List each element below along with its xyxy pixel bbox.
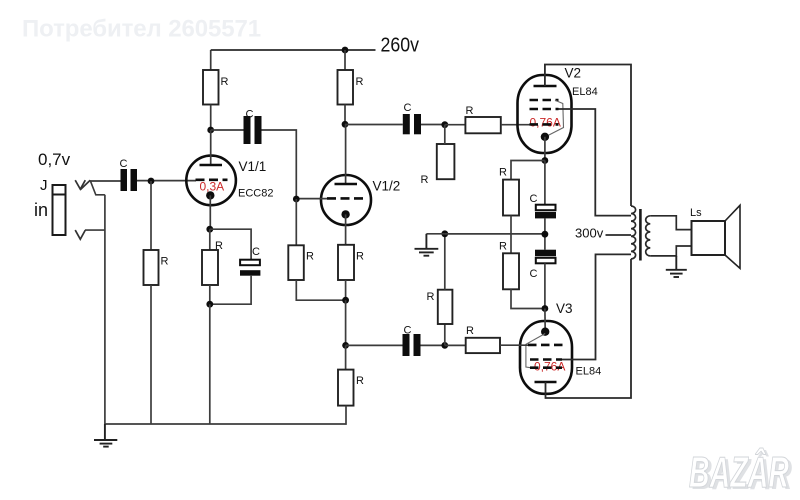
- resistor R (V1/2 grid leak): [288, 199, 345, 300]
- wire: secondary top to speaker: [650, 216, 691, 230]
- wire: divider mid to ground symbol: [426, 233, 444, 235]
- node: cathode network bottom junction: [206, 301, 213, 308]
- V2 g3 to cathode tie: [547, 100, 564, 136]
- node: V1/2 cathode junction: [342, 297, 349, 304]
- svg-text:R: R: [427, 291, 435, 303]
- triode V1/2 envelope: [321, 175, 371, 225]
- wire: V2 screen to transformer tap: [559, 109, 632, 216]
- V3 suppressor grid g3 (dashed): [530, 366, 562, 369]
- wire: grid node to V1/2 grid: [296, 198, 327, 200]
- V1/1 grid (dashed): [196, 179, 228, 182]
- svg-text:V1/1: V1/1: [239, 159, 267, 174]
- resistor R (V1/2 cathode lower): [338, 345, 354, 424]
- svg-text:R: R: [215, 240, 223, 252]
- resistor R (V3 grid stopper, horizontal): [445, 338, 528, 353]
- V2 suppressor grid g3 (dashed): [530, 99, 559, 102]
- wire: chain bottom to V3 cathode junction: [511, 289, 545, 308]
- capacitor C (V1/1 cathode bypass, electrolytic): [210, 229, 261, 304]
- wire: secondary bottom to speaker: [650, 246, 691, 256]
- resistor R (divider lower): [438, 234, 453, 346]
- svg-text:Ls: Ls: [690, 207, 702, 219]
- node: divider mid junction: [441, 230, 448, 237]
- V2 anode lead to transformer: [545, 65, 631, 207]
- wire: cathode junction down: [345, 300, 347, 345]
- net: 260v rail wire: [211, 49, 376, 51]
- wire: sleeve to ground vertical: [85, 229, 105, 231]
- V3 cathode dot: [541, 328, 549, 336]
- svg-text:300v: 300v: [575, 226, 604, 241]
- node: V1/2 anode junction: [342, 121, 349, 128]
- node: V3 cathode junction: [542, 305, 549, 312]
- transformer primary winding: [631, 206, 636, 259]
- svg-text:C: C: [246, 109, 254, 121]
- V3 screen grid g2 (dashed): [530, 358, 562, 361]
- transformer core: [639, 209, 642, 261]
- svg-text:V3: V3: [556, 301, 573, 316]
- svg-text:EL84: EL84: [576, 366, 602, 378]
- resistor R (V1/1 plate load): [203, 50, 219, 130]
- transformer secondary winding: [646, 216, 651, 256]
- wire: input cap to V1/1 grid: [137, 180, 196, 182]
- jack J connector body: [53, 185, 66, 235]
- svg-text:0,3A: 0,3A: [200, 180, 225, 194]
- wire: V3 screen to transformer tap: [562, 254, 631, 359]
- svg-text:C: C: [404, 325, 412, 337]
- V3 control grid g1 (dashed): [528, 344, 563, 347]
- wire: V2 cathode junction to cap chain: [544, 161, 546, 205]
- svg-text:R: R: [356, 375, 364, 387]
- wire: between chain resistors: [510, 216, 512, 254]
- svg-text:R: R: [356, 76, 364, 88]
- svg-text:R: R: [421, 174, 429, 186]
- wire: cap chain mid: [544, 218, 546, 249]
- resistor R (V1/1 grid leak): [144, 181, 159, 424]
- jack sleeve contact: [75, 230, 85, 239]
- svg-text:EL84: EL84: [572, 86, 598, 98]
- V1/1 anode lead: [210, 130, 212, 165]
- V1/2 grid (dashed): [327, 197, 368, 200]
- svg-text:C: C: [530, 268, 538, 280]
- node: cap chain mid junction: [542, 231, 549, 238]
- wire: cap chain bottom to V3 cathode junction: [544, 263, 546, 308]
- node: phase splitter output junction: [342, 342, 349, 349]
- ground symbol (main): [94, 424, 117, 447]
- wire: divider mid to cathode cap chain: [445, 233, 545, 235]
- ground symbol (secondary): [666, 256, 687, 277]
- V2 cathode dot: [541, 133, 549, 141]
- svg-text:R: R: [499, 241, 507, 253]
- svg-text:R: R: [221, 76, 229, 88]
- svg-text:ECC82: ECC82: [238, 188, 273, 200]
- wire: coupling cap 3 to V3 grid node: [421, 344, 445, 346]
- V3 g3 to cathode tie: [526, 334, 545, 368]
- svg-text:R: R: [499, 167, 507, 179]
- wire: V1/2 anode junction to coupling cap 2: [345, 124, 403, 126]
- speaker Ls: [692, 205, 741, 268]
- node: V2 grid node: [441, 121, 448, 128]
- node: V1/1 anode junction: [207, 127, 214, 134]
- svg-text:260v: 260v: [381, 34, 420, 57]
- svg-text:C: C: [530, 193, 538, 205]
- resistor R (V2 cathode chain upper): [503, 180, 519, 216]
- V3 plate: [535, 381, 557, 384]
- wire: 300v center tap: [606, 234, 632, 236]
- node: 260v rail junction: [342, 47, 349, 54]
- capacitor C (input): [121, 169, 138, 191]
- resistor R (V1/2 cathode upper): [338, 245, 354, 300]
- V1/2 anode lead: [345, 124, 347, 184]
- svg-text:C: C: [120, 158, 128, 170]
- V1/2 cathode dot: [341, 210, 349, 218]
- V1/1 cathode lead: [209, 195, 211, 229]
- ground symbol (divider): [415, 234, 439, 256]
- V1/2 plate: [335, 183, 358, 186]
- resistor R (V2 cathode chain lower): [503, 253, 519, 289]
- V1/1 plate: [200, 164, 223, 167]
- wire: tip to input cap: [90, 180, 121, 182]
- svg-text:R: R: [161, 256, 169, 268]
- svg-text:0,76A: 0,76A: [530, 116, 561, 130]
- node: V1/1 grid junction: [148, 178, 155, 185]
- V2 plate: [534, 85, 557, 88]
- node: V1/2 grid junction: [293, 196, 300, 203]
- svg-text:J: J: [40, 177, 48, 194]
- resistor R (V2 grid stopper, horizontal): [445, 117, 531, 133]
- capacitor C (V1/1 to V1/2 coupling): [244, 116, 262, 144]
- V1/1 cathode dot: [206, 191, 214, 199]
- wire: cathode network to ground bus: [209, 304, 211, 424]
- svg-text:Потребител 2605571: Потребител 2605571: [22, 16, 261, 43]
- svg-text:C: C: [252, 246, 260, 258]
- svg-text:R: R: [466, 105, 474, 117]
- svg-text:in: in: [34, 200, 48, 220]
- node: V2 cathode junction: [542, 157, 549, 164]
- wire: input ground vertical: [104, 195, 106, 424]
- svg-text:0,7v: 0,7v: [38, 150, 71, 169]
- resistor R (V1/1 cathode): [202, 229, 218, 304]
- capacitor C (V1/2 to V2 coupling): [403, 114, 421, 134]
- V1/2 cathode lead: [345, 214, 347, 244]
- jack tip contact: [75, 180, 90, 189]
- wire: coupling cap to V1/2 grid: [262, 130, 297, 199]
- wire: splitter junction to lower coupling cap: [346, 344, 403, 346]
- svg-text:R: R: [466, 325, 474, 337]
- wire: coupling cap 2 to V2 grid node: [421, 124, 445, 126]
- capacitor C (cathode chain lower, electrolytic): [535, 250, 556, 264]
- svg-text:R: R: [356, 251, 364, 263]
- svg-text:R: R: [306, 251, 314, 263]
- capacitor C (cathode chain upper, electrolytic): [535, 205, 556, 219]
- triode V1/1 envelope: [186, 156, 236, 206]
- svg-text:V1/2: V1/2: [373, 179, 401, 194]
- V2 screen grid g2 (dashed): [530, 108, 559, 111]
- wire: V2 cathode to resistor chain: [511, 161, 545, 180]
- V3 anode lead to transformer: [546, 259, 632, 398]
- svg-text:C: C: [404, 102, 412, 114]
- node: V3 grid node: [441, 342, 448, 349]
- pentode V2 envelope: [518, 75, 572, 153]
- node: V1/1 cathode junction: [206, 226, 213, 233]
- ground bus wire: [105, 423, 346, 425]
- V2 cathode lead: [544, 137, 546, 161]
- svg-text:V2: V2: [565, 66, 582, 81]
- V2 control grid g1 (dashed): [530, 123, 559, 126]
- wire: jack normalling contact to ground line: [90, 180, 105, 194]
- resistor R (V1/2 plate load): [338, 50, 354, 124]
- pentode V3 envelope: [520, 321, 572, 394]
- capacitor C (V1/2 to V3 coupling): [403, 334, 421, 356]
- resistor R (divider upper): [437, 125, 455, 180]
- wire: anode junction to coupling cap: [211, 129, 244, 131]
- svg-text:BAZÂR: BAZÂR: [689, 447, 789, 497]
- V3 cathode lead: [544, 309, 546, 332]
